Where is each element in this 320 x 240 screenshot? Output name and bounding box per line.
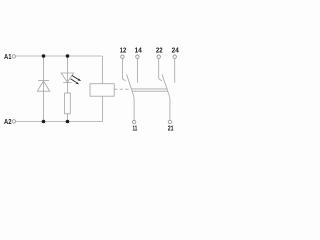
diode V1 triangle — [37, 81, 49, 91]
wire diode branch — [43, 56, 45, 122]
svg-text:11: 11 — [133, 126, 138, 133]
actuator dashed mechanical link — [114, 88, 128, 90]
terminal circle 11 — [132, 120, 135, 123]
wire A2 horizontal rail — [16, 121, 103, 123]
svg-text:12: 12 — [120, 47, 127, 55]
terminal circle 22 — [157, 55, 160, 58]
LED arrow 1 head — [78, 78, 81, 81]
contact arm pole 2 — [162, 74, 170, 120]
terminal circle A1 — [12, 55, 15, 58]
svg-text:24: 24 — [172, 47, 179, 54]
coupling bar upper — [131, 88, 167, 90]
svg-text:21: 21 — [168, 125, 174, 133]
wire coil bottom lead — [102, 96, 104, 121]
diode V1 cathode bar — [38, 80, 49, 82]
coil K1 body — [90, 84, 114, 97]
junction node A1-LED — [66, 54, 70, 58]
LED arrow 2 shaft — [71, 79, 77, 82]
LED arrow 1 shaft — [72, 75, 78, 79]
wire A1 horizontal rail — [16, 55, 102, 57]
LED D1 triangle — [61, 73, 73, 82]
wire terminal 14 riser — [136, 58, 138, 82]
svg-text:A2: A2 — [4, 118, 12, 126]
junction node A2-diode — [42, 120, 46, 124]
wire terminal 22 riser — [159, 58, 162, 81]
wire LED branch — [67, 56, 69, 122]
wire terminal 24 riser — [174, 58, 176, 82]
junction node A1-diode — [42, 54, 46, 58]
junction node A2-resistor — [66, 120, 70, 124]
LED arrow 2 head — [76, 82, 79, 85]
coupling bar lower — [132, 90, 168, 92]
wire coil top lead — [101, 56, 103, 84]
contact arm pole 1 — [127, 74, 135, 120]
wire terminal 12 riser — [122, 58, 125, 81]
terminal circle 21 — [168, 120, 171, 123]
terminal circle 14 — [136, 55, 139, 58]
terminal circle 12 — [121, 55, 124, 58]
resistor R1 body — [65, 93, 71, 114]
LED D1 cathode bar — [63, 82, 71, 84]
terminal circle 24 — [173, 55, 176, 58]
svg-text:22: 22 — [156, 47, 163, 54]
svg-text:A1: A1 — [4, 54, 12, 62]
terminal circle A2 — [12, 120, 15, 123]
svg-text:14: 14 — [135, 47, 142, 54]
